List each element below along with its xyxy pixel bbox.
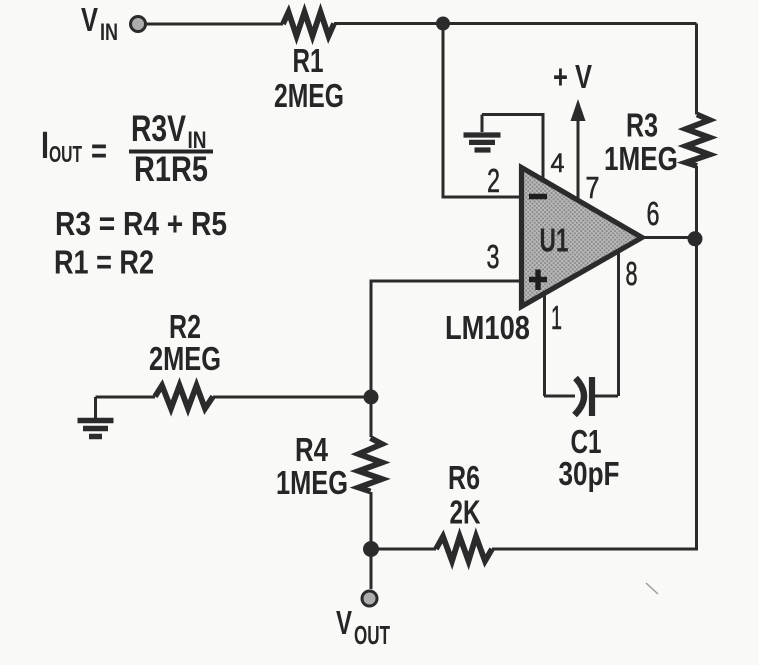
svg-text:R1R5: R1R5 <box>134 150 208 189</box>
svg-text:U1: U1 <box>540 222 569 259</box>
svg-text:+ V: + V <box>553 58 592 95</box>
svg-text:R3: R3 <box>626 107 658 144</box>
svg-text:3: 3 <box>487 238 500 275</box>
svg-text:LM108: LM108 <box>445 309 530 346</box>
svg-text:1MEG: 1MEG <box>604 140 678 177</box>
svg-text:7: 7 <box>586 170 600 205</box>
svg-text:2MEG: 2MEG <box>274 77 344 114</box>
svg-text:1MEG: 1MEG <box>276 464 348 501</box>
svg-text:R1: R1 <box>293 42 324 79</box>
svg-text:OUT: OUT <box>354 620 390 650</box>
svg-text:I: I <box>41 125 49 167</box>
svg-text:R1 = R2: R1 = R2 <box>54 244 154 281</box>
svg-text:R3V: R3V <box>131 108 186 149</box>
svg-text:V: V <box>81 1 98 38</box>
svg-text:R3 = R4 + R5: R3 = R4 + R5 <box>55 205 227 242</box>
svg-text:=: = <box>91 133 107 171</box>
svg-text:6: 6 <box>647 195 660 232</box>
svg-text:R6: R6 <box>448 459 480 496</box>
svg-text:R4: R4 <box>295 431 329 468</box>
svg-text:IN: IN <box>100 19 118 46</box>
svg-text:2: 2 <box>487 162 500 199</box>
svg-text:1: 1 <box>551 299 562 336</box>
svg-text:4: 4 <box>551 148 565 178</box>
svg-text:2K: 2K <box>450 494 481 531</box>
svg-text:2MEG: 2MEG <box>149 340 221 377</box>
svg-text:V: V <box>336 604 352 641</box>
svg-text:OUT: OUT <box>49 141 82 167</box>
svg-text:8: 8 <box>626 255 638 292</box>
svg-text:30pF: 30pF <box>559 455 620 492</box>
